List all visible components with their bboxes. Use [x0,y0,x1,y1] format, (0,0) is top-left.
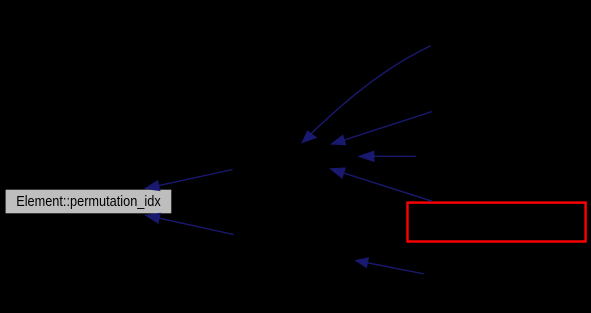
wire edge E (center node to grey box, upper) [145,170,233,191]
wire edge A (curved, top-right caller to center node) [302,46,431,143]
node truncated-caller (red box, label hidden) [408,203,586,242]
svg-text:Element::permutation_idx: Element::permutation_idx [16,194,161,210]
wire edge F (lower-middle node to grey box, lower) [146,213,234,234]
wire edge D (from red box to center node bottom) [330,168,432,201]
wire edge G (bottom-right caller to lower-middle node) [356,258,424,274]
wire edge B (straight caller arrow into center node top) [331,112,432,145]
wire edge C (horizontal caller arrow into center node right) [359,151,416,161]
node Element::permutation_idx (highlighted grey box) [6,190,172,214]
